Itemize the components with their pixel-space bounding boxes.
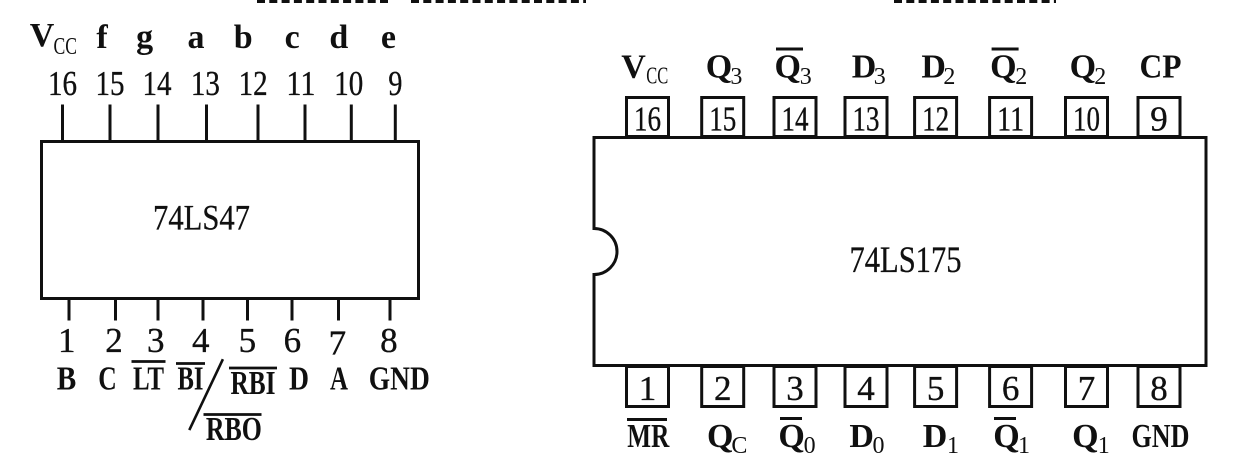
svg-text:a: a [188, 19, 205, 56]
svg-text:CC: CC [54, 34, 78, 60]
svg-text:RBI: RBI [231, 365, 276, 402]
svg-text:5: 5 [927, 369, 945, 408]
U1 RBI overline [229, 367, 277, 370]
svg-text:4: 4 [192, 321, 210, 360]
U2 pin 16 box [627, 98, 669, 137]
svg-text:3: 3 [800, 64, 812, 90]
svg-text:7: 7 [1078, 369, 1096, 408]
svg-text:74LS47: 74LS47 [153, 198, 250, 238]
svg-text:Q: Q [990, 49, 1016, 86]
svg-text:16: 16 [48, 64, 77, 103]
svg-text:C: C [731, 433, 747, 459]
U1 pin 5 lead [246, 299, 249, 321]
U1 slash BI/RBO [189, 359, 223, 430]
svg-text:D: D [849, 418, 874, 455]
svg-text:D: D [852, 49, 877, 86]
svg-text:1: 1 [1018, 433, 1030, 459]
svg-text:1: 1 [1098, 433, 1110, 459]
IC U1 74LS47 body [42, 142, 419, 299]
svg-text:11: 11 [997, 100, 1024, 139]
svg-text:5: 5 [239, 321, 257, 360]
svg-text:D: D [921, 49, 946, 86]
caption fragment left part 2 [411, 0, 586, 3]
U1 pin 4 lead [202, 299, 205, 321]
svg-text:V: V [30, 17, 55, 54]
U2 Q2bar overline [992, 48, 1019, 51]
U1 LT overline [132, 360, 166, 363]
svg-text:3: 3 [874, 64, 886, 90]
svg-text:74LS175: 74LS175 [850, 240, 962, 281]
U1 pin 3 lead [157, 299, 160, 321]
U1 pin 13 lead [205, 105, 208, 142]
svg-text:8: 8 [1150, 369, 1168, 408]
svg-text:8: 8 [380, 321, 398, 360]
svg-text:GND: GND [369, 361, 430, 398]
U2 MR overline [627, 418, 667, 421]
U2 pin 12 box [915, 98, 957, 137]
svg-text:e: e [381, 19, 396, 56]
U1 pin 9 lead [394, 105, 397, 142]
svg-text:3: 3 [147, 321, 165, 360]
svg-text:14: 14 [782, 100, 809, 139]
svg-text:g: g [136, 19, 153, 56]
svg-text:A: A [330, 361, 348, 398]
U2 pin 6 box [990, 367, 1032, 407]
svg-text:1: 1 [947, 433, 959, 459]
caption fragment right [894, 0, 1056, 3]
U1 RBO overline [204, 413, 262, 416]
svg-text:1: 1 [58, 321, 76, 360]
svg-text:7: 7 [329, 324, 347, 363]
svg-text:2: 2 [1094, 64, 1106, 90]
svg-text:b: b [234, 19, 253, 56]
svg-text:c: c [285, 19, 300, 56]
svg-text:16: 16 [634, 100, 661, 139]
U1 pin 8 lead [389, 299, 392, 321]
svg-text:1: 1 [639, 369, 657, 408]
svg-text:Q: Q [993, 418, 1019, 455]
svg-text:RBO: RBO [206, 411, 262, 448]
svg-text:C: C [98, 361, 117, 398]
svg-text:15: 15 [709, 100, 736, 139]
U2 pin 5 box [915, 367, 957, 407]
svg-text:2: 2 [105, 321, 123, 360]
svg-text:Q: Q [778, 418, 804, 455]
U1 pin 14 lead [157, 105, 160, 142]
svg-text:3: 3 [730, 64, 742, 90]
svg-text:13: 13 [853, 100, 880, 139]
svg-text:9: 9 [388, 64, 402, 103]
svg-text:Q: Q [706, 49, 732, 86]
U1 pin 16 lead [61, 105, 64, 142]
U2 pin 9 box [1138, 98, 1180, 137]
svg-text:Q: Q [774, 49, 800, 86]
svg-text:D: D [289, 361, 309, 398]
svg-text:V: V [621, 48, 646, 85]
svg-text:0: 0 [873, 433, 885, 459]
svg-text:BI: BI [178, 361, 204, 398]
IC U2 74LS175 body with notch [594, 138, 1206, 366]
svg-text:B: B [57, 361, 77, 398]
U1 pin 7 lead [337, 299, 340, 321]
svg-text:2: 2 [714, 369, 732, 408]
svg-text:12: 12 [239, 64, 268, 103]
U1 pin 11 lead [304, 105, 307, 142]
U1 pin 2 lead [114, 299, 117, 321]
U1 pin 6 lead [291, 299, 294, 321]
U2 Q3bar overline [776, 48, 803, 51]
U2 pin 14 box [774, 98, 816, 137]
U1 pin 10 lead [350, 105, 353, 142]
svg-text:CP: CP [1140, 49, 1182, 86]
U2 pin 11 box [990, 98, 1032, 137]
caption fragment left (cut-off text bottoms) [257, 0, 392, 3]
U2 pin 4 box [845, 367, 887, 407]
U1 pin 1 lead [68, 299, 71, 321]
U2 Q0bar overline [780, 417, 802, 420]
svg-text:Q: Q [1072, 418, 1098, 455]
svg-text:3: 3 [786, 369, 804, 408]
svg-text:GND: GND [1132, 418, 1190, 455]
svg-text:2: 2 [1015, 64, 1027, 90]
U2 pin 1 box [627, 367, 669, 407]
svg-text:2: 2 [943, 64, 955, 90]
U2 pin 7 box [1066, 367, 1108, 407]
svg-text:d: d [329, 19, 348, 56]
svg-text:9: 9 [1150, 100, 1168, 139]
svg-text:4: 4 [857, 369, 875, 408]
svg-text:6: 6 [1002, 369, 1020, 408]
U1 pin 15 lead [109, 105, 112, 142]
svg-text:D: D [923, 418, 948, 455]
svg-text:f: f [96, 19, 108, 56]
svg-text:13: 13 [191, 64, 220, 103]
U2 pin 13 box [845, 98, 887, 137]
svg-text:0: 0 [804, 433, 816, 459]
svg-text:Q: Q [1070, 49, 1096, 86]
svg-text:LT: LT [133, 361, 164, 398]
U2 pin 2 box [702, 367, 744, 407]
svg-text:6: 6 [284, 321, 302, 360]
svg-text:11: 11 [286, 64, 315, 103]
svg-text:10: 10 [1073, 100, 1100, 139]
svg-text:MR: MR [627, 418, 669, 455]
U1 pin 12 lead [257, 105, 260, 142]
svg-text:15: 15 [96, 64, 125, 103]
svg-text:14: 14 [143, 64, 172, 103]
U2 pin 3 box [774, 367, 816, 407]
svg-text:12: 12 [922, 100, 949, 139]
svg-text:10: 10 [334, 64, 363, 103]
svg-text:CC: CC [646, 64, 668, 90]
U2 Q1bar overline [994, 417, 1016, 420]
U2 pin 8 box [1138, 367, 1180, 407]
U1 BI overline [176, 362, 205, 365]
U2 pin 15 box [702, 98, 744, 137]
svg-text:Q: Q [707, 418, 733, 455]
U2 pin 10 box [1066, 98, 1108, 137]
